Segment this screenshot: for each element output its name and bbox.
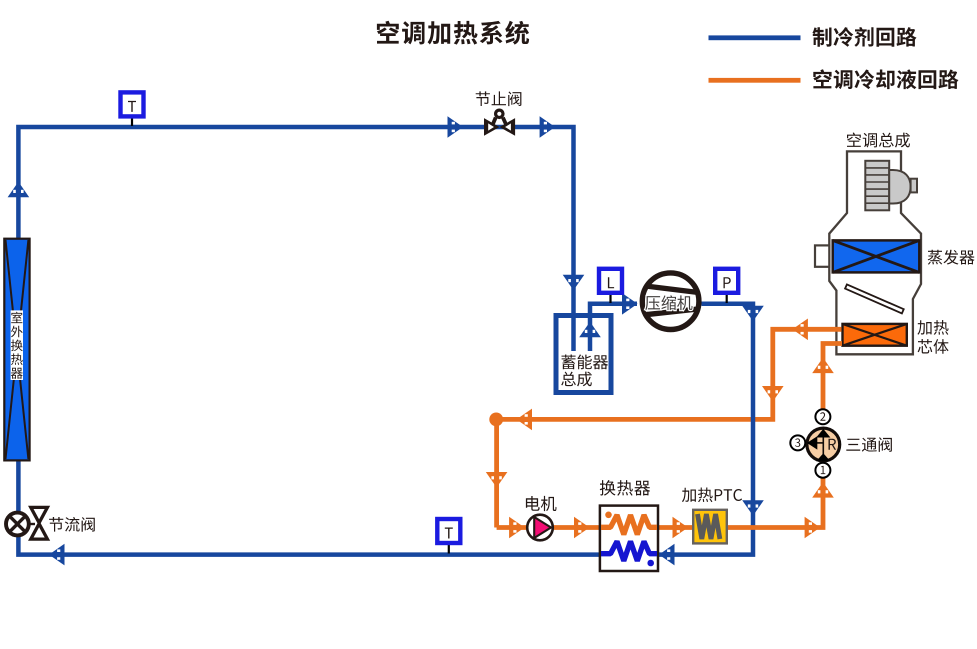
wire orange: valve port 2 up into heater core xyxy=(823,344,842,410)
arrow blue up left riser xyxy=(8,182,30,198)
wire blue: heat exchanger to throttle valve and outdoor HX xyxy=(18,460,600,555)
sensor T1 stem xyxy=(131,117,133,126)
arrow orange up into heater core xyxy=(812,358,834,374)
arrow blue right after stop valve xyxy=(540,116,556,138)
HVAC case 空调总成 outline xyxy=(829,151,921,354)
arrow orange up to valve port 1 xyxy=(812,482,834,498)
label 空调总成 xyxy=(847,133,910,148)
compressor 压缩机 xyxy=(642,273,699,330)
label 加热PTC xyxy=(682,488,742,503)
legend line coolant loop xyxy=(709,78,801,83)
throttle valve 节流阀 xyxy=(6,507,47,539)
outdoor heat exchanger 室外换热器 xyxy=(4,239,29,461)
sensor T2 box xyxy=(437,519,460,543)
sensor T2 stem xyxy=(448,543,450,554)
blend door flap xyxy=(845,284,904,313)
evaporator inlet stub xyxy=(815,245,829,266)
arrow orange right before pump xyxy=(509,517,524,539)
accumulator outlet stub xyxy=(588,318,593,351)
label 加热芯体 xyxy=(917,320,948,335)
blower motor nub xyxy=(911,179,917,193)
arrow blue down after compressor xyxy=(742,306,764,322)
three-way valve 三通阀 body xyxy=(807,428,840,461)
evaporator 蒸发器 xyxy=(833,240,920,272)
wire blue: outdoor HX top, up + across top + down into accumulator xyxy=(18,127,573,351)
label 蓄能器总成 xyxy=(562,355,609,370)
sensor P stem xyxy=(726,292,728,303)
arrow blue down right riser xyxy=(742,500,764,516)
stop valve 节止阀 xyxy=(484,109,515,136)
wire blue: accumulator out to compressor xyxy=(590,304,637,351)
heater core 加热芯体 xyxy=(843,324,907,346)
wire blue: compressor out, right+down+left to heat exchanger xyxy=(658,304,753,555)
sensor L stem xyxy=(609,292,611,303)
label 节止阀 xyxy=(476,91,522,106)
label 压缩机 xyxy=(645,295,692,310)
title 空调加热系统 xyxy=(377,21,529,45)
accumulator 蓄能器总成 box xyxy=(556,316,611,393)
arrow blue right into compressor xyxy=(622,293,638,315)
arrow orange left into junction xyxy=(517,409,533,431)
arrow blue right before stop valve xyxy=(448,116,464,138)
wire orange: pump line to PTC and up to three-way valve port 1 xyxy=(497,472,823,528)
label 电机 xyxy=(526,496,557,511)
blower motor hump xyxy=(889,170,910,204)
motor pump 电机 xyxy=(527,515,553,541)
sensor T1 box xyxy=(121,92,144,116)
valve port 2 xyxy=(815,409,830,424)
arrow orange right before PTC xyxy=(673,517,689,539)
label 三通阀 xyxy=(846,437,892,452)
accumulator inlet stub xyxy=(571,318,576,351)
blower ribs xyxy=(865,161,889,211)
arrow orange down x772 xyxy=(762,386,784,402)
heat exchanger 换热器 box xyxy=(600,506,658,571)
arrow orange right before riser xyxy=(805,517,821,539)
arrow orange down to pump xyxy=(486,472,508,488)
sensor P box xyxy=(715,269,738,293)
valve port 3 xyxy=(790,435,805,450)
legend label 空调冷却液回路 xyxy=(813,69,958,89)
junction node dot xyxy=(489,413,503,427)
valve port 1 xyxy=(815,463,830,478)
PTC heater 加热PTC xyxy=(693,510,727,544)
sensor L box xyxy=(599,269,622,293)
label 节流阀 xyxy=(49,517,95,532)
arrow blue up accumulator out xyxy=(579,322,601,338)
wire orange: heater core out, left+down+left to junction, down to pump level xyxy=(497,329,842,527)
arrow orange left on core-out xyxy=(792,319,808,341)
arrow blue left into heat exchanger xyxy=(659,544,675,566)
legend line refrigerant loop xyxy=(709,35,801,40)
label 换热器 xyxy=(600,480,650,496)
label 蒸发器 xyxy=(928,250,975,265)
arrow blue down into accumulator xyxy=(563,275,585,291)
arrow blue left bottom return xyxy=(49,544,65,566)
legend label 制冷剂回路 xyxy=(812,27,916,47)
arrow orange right after pump xyxy=(574,517,590,539)
